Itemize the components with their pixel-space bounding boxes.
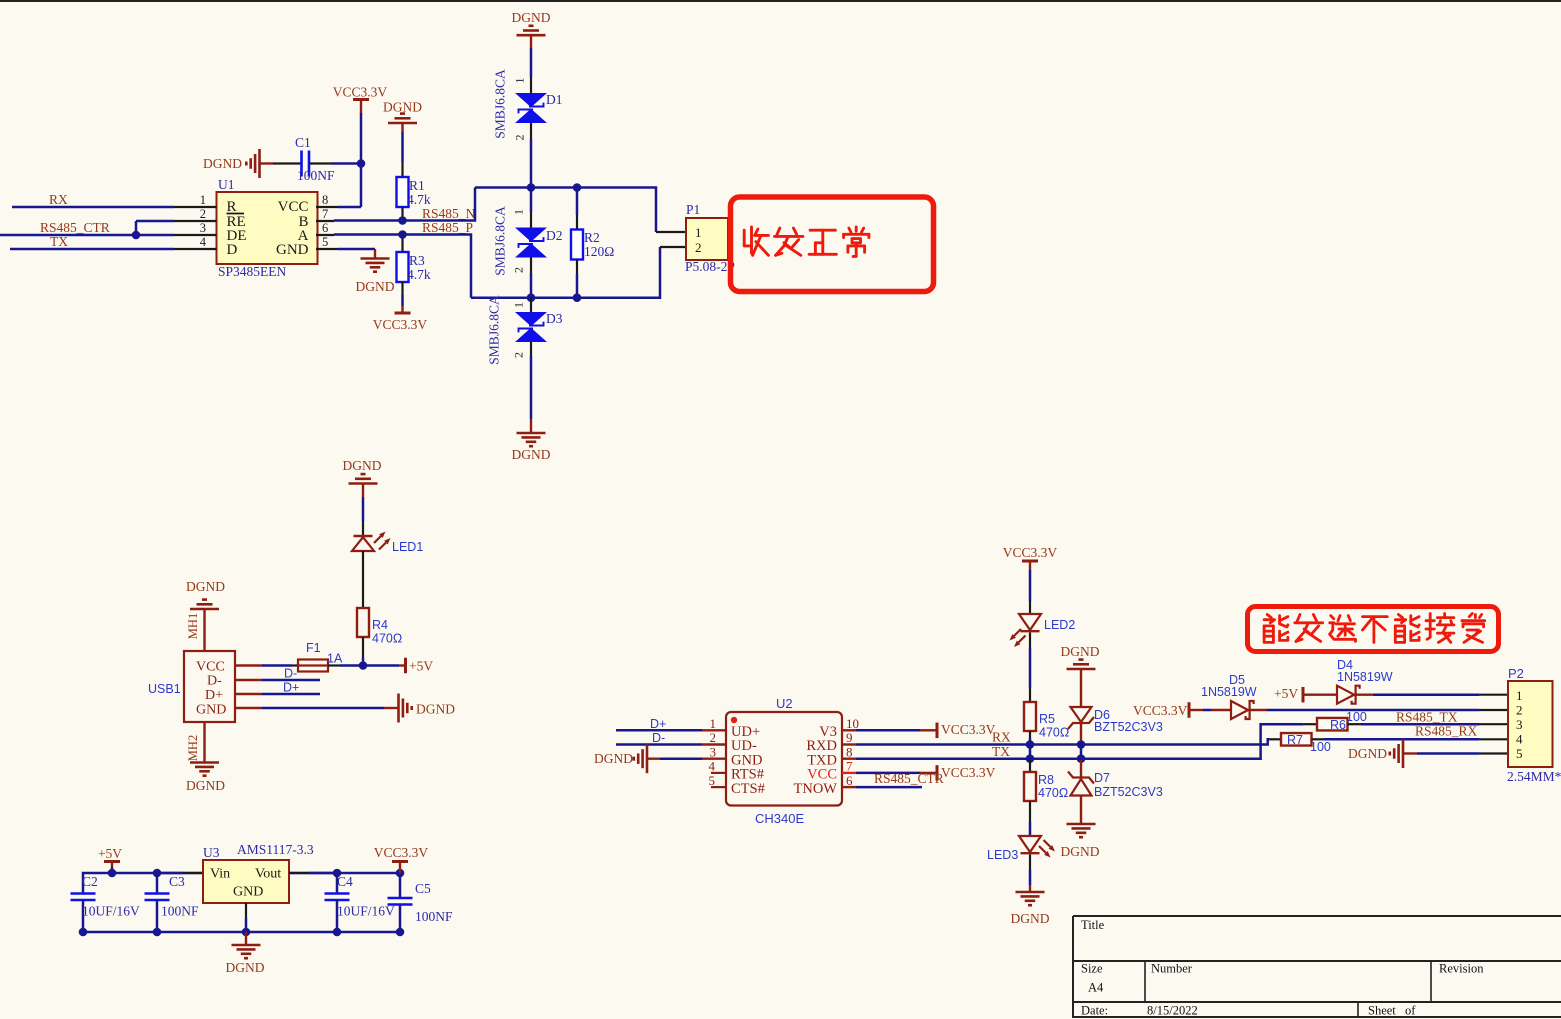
- svg-text:TX: TX: [50, 234, 68, 249]
- svg-text:R3: R3: [409, 253, 425, 268]
- svg-text:1: 1: [710, 716, 717, 731]
- svg-text:5: 5: [1516, 746, 1523, 761]
- diode D6 BZT52C3V3: [1068, 680, 1163, 745]
- annotation box "收发正常": [731, 197, 934, 292]
- svg-text:MH2: MH2: [186, 735, 200, 761]
- svg-text:6: 6: [322, 221, 328, 235]
- svg-text:1N5819W: 1N5819W: [1337, 670, 1393, 684]
- power port DGND (MH2): [186, 735, 225, 793]
- svg-text:GND: GND: [233, 885, 263, 900]
- wire RS485_P: [316, 220, 473, 298]
- power port +5V (USB): [363, 658, 433, 674]
- svg-text:TNOW: TNOW: [794, 781, 838, 797]
- wire +5V rail: [83, 869, 404, 893]
- svg-text:C5: C5: [415, 881, 431, 896]
- wire bus top: [475, 183, 656, 232]
- svg-text:1: 1: [1516, 688, 1523, 703]
- svg-text:RS485_RX: RS485_RX: [1415, 724, 1478, 739]
- svg-text:GND: GND: [196, 703, 226, 718]
- resistor R7 100: [1269, 733, 1331, 754]
- svg-text:+5V: +5V: [98, 846, 122, 861]
- node RX junction (D6): [1077, 740, 1086, 749]
- svg-text:5: 5: [709, 773, 716, 788]
- svg-text:RX: RX: [992, 730, 1011, 745]
- wire RX-TX link: [1029, 745, 1032, 759]
- resistor R2 120ohm: [571, 188, 614, 298]
- svg-text:P2: P2: [1508, 666, 1524, 681]
- svg-text:4.7k: 4.7k: [407, 267, 431, 282]
- power port DGND (above D6): [1061, 644, 1100, 680]
- wire RS485_CTR (pins 2,3): [0, 220, 217, 239]
- svg-text:VCC3.3V: VCC3.3V: [374, 845, 429, 860]
- svg-text:470Ω: 470Ω: [372, 632, 402, 646]
- svg-text:D+: D+: [650, 717, 666, 731]
- svg-text:4: 4: [709, 759, 716, 774]
- connector P1 P5.08-2P: [656, 202, 735, 274]
- svg-text:C1: C1: [295, 135, 311, 150]
- svg-text:C3: C3: [169, 874, 185, 889]
- svg-text:D2: D2: [546, 228, 563, 243]
- svg-text:3: 3: [200, 221, 206, 235]
- svg-text:8: 8: [846, 745, 853, 760]
- svg-text:470Ω: 470Ω: [1038, 786, 1068, 800]
- svg-text:2.54MM*5: 2.54MM*5: [1507, 769, 1561, 784]
- svg-text:U1: U1: [218, 177, 235, 192]
- resistor R1 4.7k: [397, 132, 431, 221]
- wire RS485_N: [316, 188, 476, 222]
- power port DGND (below D3): [512, 419, 551, 462]
- fuse F1 1A: [235, 641, 363, 672]
- svg-text:Vout: Vout: [255, 867, 281, 882]
- svg-text:D1: D1: [546, 92, 563, 107]
- regulator U3 AMS1117-3.3: [157, 842, 337, 932]
- capacitor C4 10UF/16V: [325, 873, 396, 932]
- svg-text:3: 3: [1516, 717, 1523, 732]
- svg-text:DGND: DGND: [186, 579, 225, 594]
- wire RS485_TX: [1361, 710, 1508, 725]
- svg-text:SP3485EEN: SP3485EEN: [218, 264, 287, 279]
- annotation box "能发送不能接受": [1248, 607, 1499, 652]
- wire GND (U2 pin3): [660, 757, 726, 760]
- power port DGND (above R1): [383, 100, 422, 132]
- IC U2 CH340E: [709, 696, 860, 826]
- diode D2 TVS SMBJ6.8CA: [493, 188, 563, 298]
- svg-text:VCC3.3V: VCC3.3V: [373, 317, 428, 332]
- power port DGND (MH1): [186, 579, 225, 639]
- svg-text:GND: GND: [276, 242, 309, 258]
- wire RX (pin 1): [12, 192, 217, 207]
- svg-text:7: 7: [322, 207, 328, 221]
- svg-text:10: 10: [846, 716, 859, 731]
- svg-text:LED1: LED1: [392, 540, 423, 554]
- svg-text:10UF/16V: 10UF/16V: [337, 904, 395, 919]
- svg-text:RX: RX: [49, 192, 68, 207]
- LED LED3: [987, 836, 1055, 892]
- power port DGND (U2 pin3): [594, 744, 660, 773]
- svg-text:DGND: DGND: [383, 100, 422, 115]
- wire RX-TX link (D6/D7): [1080, 745, 1083, 759]
- power port DGND (below LED3): [1011, 892, 1050, 926]
- svg-text:RS485_CTR: RS485_CTR: [874, 771, 944, 786]
- power port +5V (D4): [1274, 686, 1318, 702]
- svg-text:3: 3: [710, 745, 717, 760]
- wire RX (U2 pin9 RXD): [842, 730, 1030, 745]
- svg-text:100NF: 100NF: [415, 909, 453, 924]
- wire RS485_CTR (U2 pin6 TNOW): [842, 771, 944, 787]
- svg-text:C4: C4: [337, 874, 353, 889]
- svg-text:2: 2: [200, 207, 206, 221]
- svg-text:D3: D3: [546, 311, 563, 326]
- svg-text:SMBJ6.8CA: SMBJ6.8CA: [493, 206, 508, 276]
- svg-text:VCC3.3V: VCC3.3V: [941, 765, 996, 780]
- svg-text:R2: R2: [584, 230, 600, 245]
- svg-text:Date:: Date:: [1081, 1004, 1108, 1018]
- diode D1 TVS SMBJ6.8CA: [493, 69, 563, 140]
- wire TX (pin 4): [10, 234, 217, 249]
- svg-text:RS485_CTR: RS485_CTR: [40, 220, 110, 235]
- svg-text:AMS1117-3.3: AMS1117-3.3: [237, 842, 314, 857]
- power port DGND (P2 pin5): [1348, 739, 1417, 768]
- svg-text:DGND: DGND: [1061, 844, 1100, 859]
- svg-text:U3: U3: [203, 845, 220, 860]
- svg-text:VCC: VCC: [196, 660, 225, 675]
- svg-text:MH1: MH1: [186, 613, 200, 639]
- svg-text:DGND: DGND: [594, 751, 633, 766]
- resistor R5 470ohm: [1024, 702, 1069, 745]
- svg-text:2: 2: [1516, 703, 1523, 718]
- node RS485_P junction: [398, 230, 407, 239]
- svg-text:10UF/16V: 10UF/16V: [82, 904, 140, 919]
- svg-text:DGND: DGND: [512, 10, 551, 25]
- svg-text:VCC3.3V: VCC3.3V: [1133, 703, 1188, 718]
- svg-text:6: 6: [846, 773, 853, 788]
- svg-text:BZT52C3V3: BZT52C3V3: [1094, 720, 1163, 734]
- svg-text:DGND: DGND: [203, 156, 242, 171]
- svg-text:VCC3.3V: VCC3.3V: [333, 85, 388, 100]
- svg-text:VCC3.3V: VCC3.3V: [1003, 545, 1058, 560]
- wire ground rail: [79, 928, 405, 937]
- svg-text:VCC3.3V: VCC3.3V: [941, 722, 996, 737]
- resistor R8 470ohm: [1024, 759, 1068, 836]
- svg-text:4: 4: [1516, 732, 1523, 747]
- power port VCC3.3V (D5): [1133, 702, 1203, 718]
- svg-text:+5V: +5V: [409, 659, 433, 674]
- svg-text:TX: TX: [992, 744, 1010, 759]
- svg-text:8/15/2022: 8/15/2022: [1147, 1004, 1198, 1018]
- svg-text:LED3: LED3: [987, 848, 1018, 862]
- svg-text:U2: U2: [776, 696, 793, 711]
- svg-text:DGND: DGND: [1061, 644, 1100, 659]
- svg-text:Number: Number: [1151, 962, 1193, 976]
- power port DGND (at C1): [203, 149, 273, 178]
- wire D+ (USB): [235, 681, 320, 695]
- svg-text:CTS#: CTS#: [731, 781, 765, 797]
- wire D- (U2 pin2): [616, 731, 726, 745]
- svg-text:VCC: VCC: [278, 199, 309, 215]
- svg-text:D-: D-: [284, 667, 297, 681]
- svg-text:9: 9: [846, 730, 853, 745]
- power port +5V (regulator): [98, 846, 122, 873]
- LED LED2: [1010, 570, 1076, 702]
- power port VCC3.3V (U2 pin10 V3): [842, 722, 996, 738]
- svg-text:DGND: DGND: [1348, 746, 1387, 761]
- svg-text:F1: F1: [306, 641, 321, 655]
- svg-text:DGND: DGND: [186, 778, 225, 793]
- svg-text:RS485_N: RS485_N: [422, 206, 476, 221]
- power port DGND (top of D1): [512, 10, 551, 48]
- svg-text:D+: D+: [205, 688, 223, 703]
- power port VCC3.3V (above LED2): [1003, 545, 1058, 570]
- svg-text:5: 5: [322, 235, 328, 249]
- wire RS485_RX: [1324, 724, 1508, 740]
- svg-text:DGND: DGND: [512, 447, 551, 462]
- svg-text:SMBJ6.8CA: SMBJ6.8CA: [493, 69, 508, 139]
- svg-text:DGND: DGND: [356, 279, 395, 294]
- svg-text:D7: D7: [1094, 771, 1110, 785]
- svg-text:D-: D-: [652, 731, 665, 745]
- svg-text:470Ω: 470Ω: [1039, 726, 1069, 740]
- power port DGND (U1 pin5): [316, 249, 395, 294]
- svg-text:D: D: [227, 242, 238, 258]
- svg-text:7: 7: [846, 759, 853, 774]
- svg-text:R4: R4: [372, 618, 388, 632]
- svg-text:R8: R8: [1038, 773, 1054, 787]
- resistor R6 100: [1304, 710, 1367, 732]
- wire D+ (U2 pin1): [616, 717, 726, 731]
- svg-text:1: 1: [512, 302, 526, 308]
- power port VCC3.3V (regulator out): [374, 845, 429, 873]
- svg-text:Sheet: Sheet: [1368, 1004, 1396, 1018]
- svg-text:1: 1: [512, 209, 526, 215]
- svg-text:1: 1: [513, 78, 527, 84]
- wire D- (USB): [235, 667, 320, 681]
- wire MH2: [203, 722, 205, 763]
- resistor R4 470ohm: [357, 608, 402, 666]
- svg-text:D-: D-: [207, 674, 222, 689]
- title block: [1073, 916, 1561, 1018]
- diode D7 BZT52C3V3: [1068, 759, 1163, 824]
- svg-text:DGND: DGND: [226, 960, 265, 975]
- svg-text:100NF: 100NF: [297, 168, 335, 183]
- diode D3 TVS SMBJ6.8CA: [487, 295, 563, 419]
- wire GND (USB): [235, 707, 398, 709]
- resistor R3 4.7k: [397, 235, 431, 314]
- svg-text:Title: Title: [1081, 918, 1105, 932]
- svg-text:2: 2: [513, 135, 527, 141]
- svg-text:1A: 1A: [327, 652, 343, 666]
- svg-text:1: 1: [695, 225, 702, 240]
- wire DGND to D1: [530, 48, 533, 78]
- wire D1 to bus: [527, 139, 536, 192]
- diode D4 1N5819W: [1318, 658, 1393, 704]
- node TX junction (R8): [1026, 754, 1035, 763]
- svg-text:2: 2: [512, 267, 526, 273]
- svg-text:R7: R7: [1287, 733, 1303, 747]
- connector P2 2.54MM: [1507, 666, 1561, 784]
- wire RX to R7: [1030, 739, 1270, 744]
- wire bus bottom: [471, 247, 660, 302]
- svg-text:100: 100: [1346, 710, 1367, 724]
- svg-text:4: 4: [200, 235, 207, 249]
- svg-text:DGND: DGND: [416, 702, 455, 717]
- wire DGND to P2 pin5: [1417, 752, 1508, 755]
- node TX junction (D7): [1077, 754, 1086, 763]
- power port DGND (above LED1): [343, 458, 382, 497]
- op-amp U1 SP3485EEN: [200, 177, 329, 279]
- svg-text:P5.08-2P: P5.08-2P: [685, 259, 735, 274]
- capacitor C1 100NF: [273, 135, 335, 183]
- svg-text:+5V: +5V: [1274, 686, 1298, 701]
- svg-text:2: 2: [695, 240, 702, 255]
- wire +5V to P2 pin1: [1373, 693, 1508, 696]
- svg-text:SMBJ6.8CA: SMBJ6.8CA: [487, 295, 502, 365]
- svg-text:of: of: [1405, 1004, 1416, 1018]
- power port DGND (regulator): [226, 932, 265, 975]
- node +5V junction: [359, 661, 368, 670]
- svg-text:100: 100: [1310, 740, 1331, 754]
- svg-text:R1: R1: [409, 178, 425, 193]
- svg-text:BZT52C3V3: BZT52C3V3: [1094, 785, 1163, 799]
- power port VCC3.3V (U1 pin8): [333, 85, 388, 114]
- svg-text:2: 2: [710, 730, 717, 745]
- node RX junction (R5): [1026, 740, 1035, 749]
- svg-text:RS485_P: RS485_P: [422, 220, 473, 235]
- svg-text:CH340E: CH340E: [755, 811, 804, 826]
- power port DGND (below D7): [1061, 824, 1100, 859]
- capacitor C2 10UF/16V: [71, 874, 141, 932]
- svg-text:Size: Size: [1081, 962, 1103, 976]
- wire VCC3.3V to pin 8: [316, 113, 361, 207]
- svg-text:100NF: 100NF: [161, 904, 199, 919]
- power port DGND (USB GND): [399, 694, 456, 723]
- wire C1 to VCC node: [331, 159, 365, 168]
- node RS485_N junction: [398, 216, 407, 225]
- svg-text:4.7k: 4.7k: [407, 192, 431, 207]
- svg-text:A4: A4: [1088, 981, 1104, 995]
- svg-text:DGND: DGND: [343, 458, 382, 473]
- svg-text:1: 1: [200, 193, 206, 207]
- svg-text:C2: C2: [82, 874, 98, 889]
- svg-text:8: 8: [322, 193, 328, 207]
- svg-text:1N5819W: 1N5819W: [1201, 685, 1257, 699]
- svg-text:R5: R5: [1039, 712, 1055, 726]
- diode D5 1N5819W: [1201, 673, 1267, 719]
- svg-text:LED2: LED2: [1044, 618, 1075, 632]
- svg-text:P1: P1: [686, 202, 700, 217]
- power port VCC3.3V (below R3): [373, 313, 428, 332]
- capacitor C3 100NF: [145, 873, 199, 932]
- svg-text:RS485_TX: RS485_TX: [1396, 710, 1458, 725]
- svg-text:DGND: DGND: [1011, 911, 1050, 926]
- LED LED1: [352, 497, 423, 608]
- svg-text:Vin: Vin: [210, 867, 230, 882]
- svg-text:Revision: Revision: [1439, 962, 1484, 976]
- wire TX to R6: [1030, 724, 1304, 759]
- connector USB1: [148, 651, 235, 722]
- capacitor C5 100NF: [388, 873, 453, 932]
- svg-text:R6: R6: [1330, 718, 1346, 732]
- svg-text:D+: D+: [283, 681, 299, 695]
- wire VCC3.3V to P2 pin2: [1267, 709, 1508, 712]
- svg-text:2: 2: [512, 352, 526, 358]
- wire MH1: [203, 609, 205, 651]
- svg-text:120Ω: 120Ω: [584, 244, 614, 259]
- svg-text:USB1: USB1: [148, 682, 181, 696]
- wire TX (U2 pin8 TXD): [842, 744, 1030, 759]
- power port VCC3.3V (U2 pin7 VCC): [842, 765, 996, 781]
